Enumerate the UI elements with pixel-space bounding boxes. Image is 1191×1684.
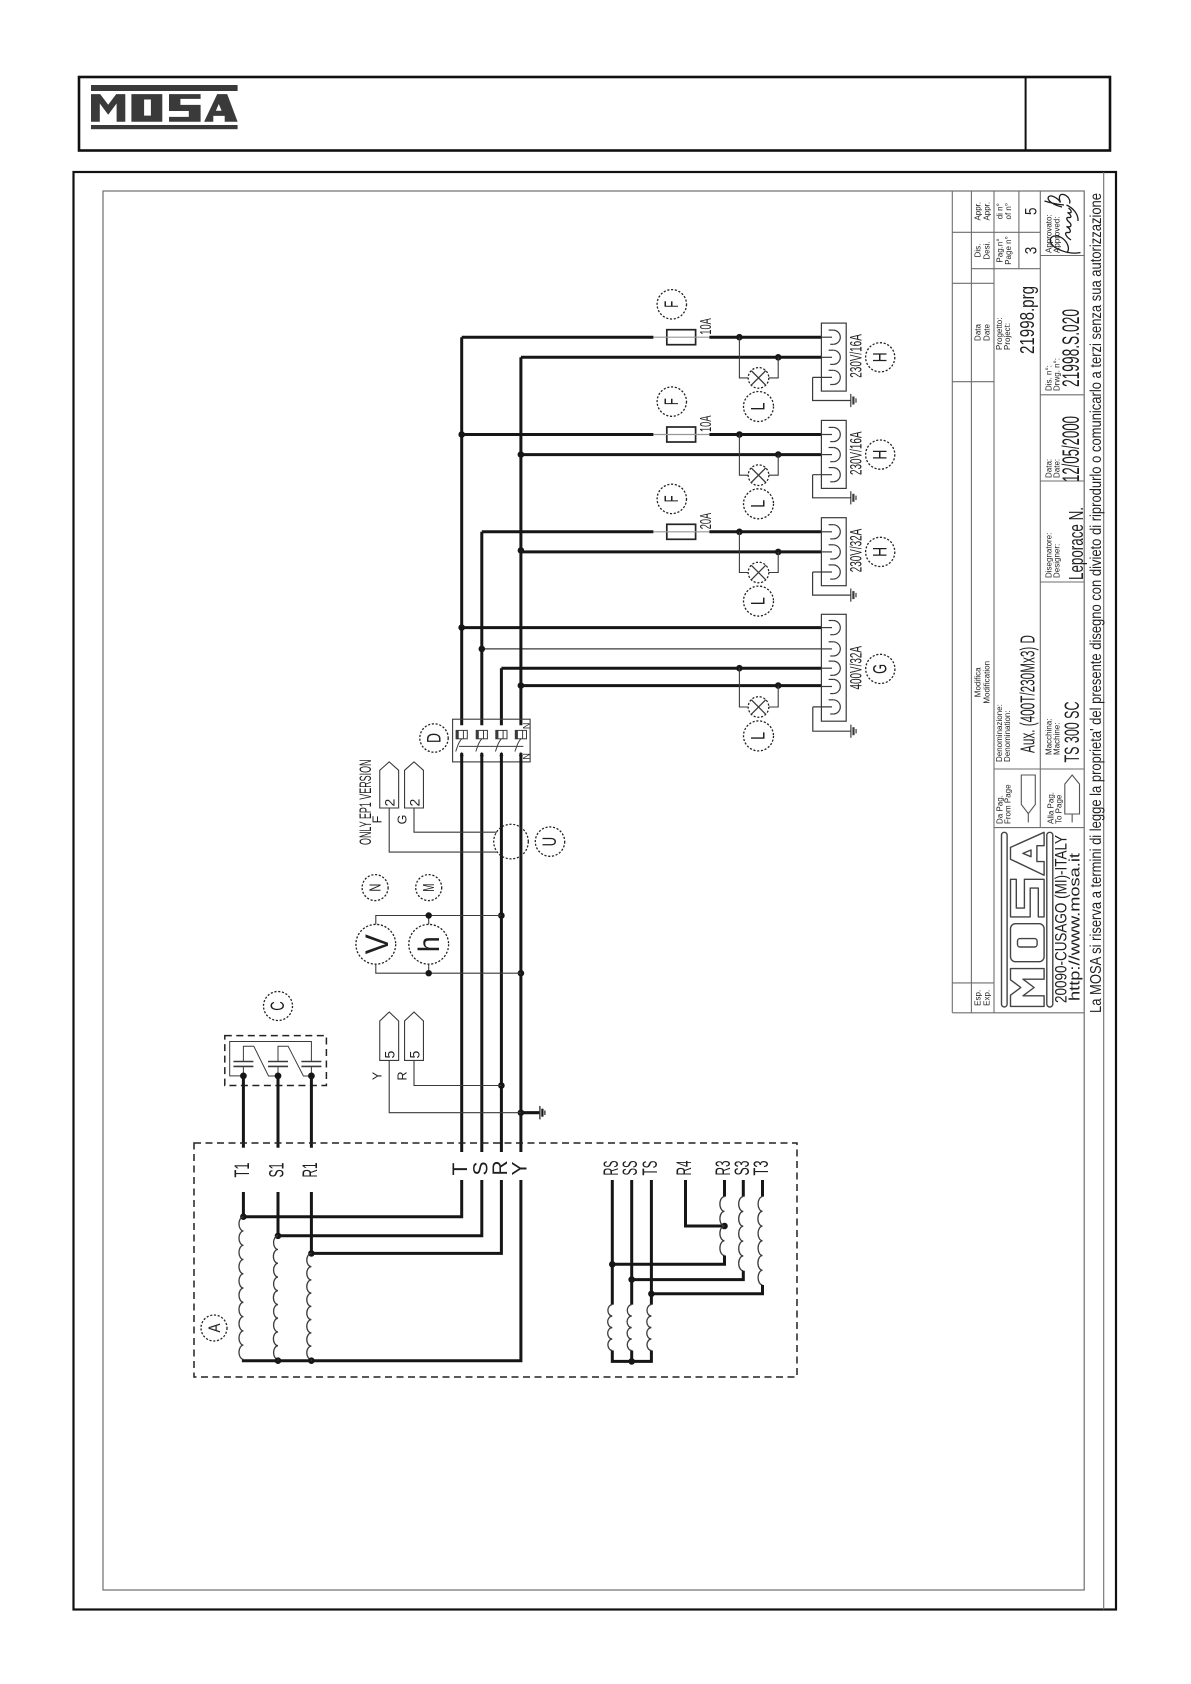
T3 winding	[761, 1180, 764, 1197]
svg-text:2: 2	[406, 799, 422, 807]
meter wiring bottom	[376, 964, 521, 973]
fuse F circuit 2	[657, 387, 686, 416]
lamp tap junctions	[736, 334, 743, 341]
lamp tap junctions	[736, 431, 743, 438]
socket earth	[851, 589, 856, 602]
svg-text:G: G	[395, 815, 409, 825]
fuse F circuit 1	[657, 290, 686, 319]
svg-text:2: 2	[382, 799, 398, 807]
wire F to CT	[389, 808, 498, 852]
A circle	[201, 1315, 227, 1341]
wires below CT	[242, 1076, 245, 1148]
svg-text:Designer:: Designer:	[1053, 544, 1062, 578]
svg-text:10A: 10A	[698, 415, 715, 432]
disclaimer strip divider	[1103, 172, 1105, 1610]
R3 winding	[723, 1180, 726, 1197]
lamp L4	[739, 668, 748, 707]
wire T vertical	[460, 337, 463, 725]
fuse 20A	[667, 524, 696, 539]
svg-text:5: 5	[406, 1051, 422, 1059]
svg-text:Exp.: Exp.	[983, 990, 992, 1006]
svg-text:H: H	[870, 547, 891, 557]
svg-text:400V/32A: 400V/32A	[847, 646, 866, 690]
fuse F circuit 3	[657, 484, 686, 513]
CT U toroid	[494, 824, 529, 859]
breaker pole	[515, 730, 526, 738]
svg-text:10A: 10A	[698, 318, 715, 335]
svg-text:D: D	[424, 733, 446, 743]
svg-text:A: A	[205, 1323, 224, 1333]
hour meter h	[409, 924, 449, 964]
outer page frame	[74, 172, 1117, 1610]
MOSA logo	[91, 85, 238, 129]
wire phase	[462, 433, 654, 436]
svg-text:of n°: of n°	[1004, 203, 1013, 220]
svg-text:5: 5	[382, 1051, 398, 1059]
svg-text:Data: Data	[974, 324, 983, 341]
approval signature	[1045, 194, 1081, 253]
flag 5 R	[405, 1012, 424, 1060]
wire S below D	[480, 753, 483, 1152]
SS coil	[627, 1305, 632, 1351]
svg-text:Denomination:: Denomination:	[1003, 710, 1012, 762]
svg-text:Appr.: Appr.	[983, 202, 992, 221]
trip bar	[459, 745, 523, 747]
D circle	[420, 724, 448, 752]
RS SS TS wires	[611, 1180, 614, 1305]
svg-text:L: L	[749, 500, 770, 508]
H circle	[866, 440, 895, 469]
wire phase	[462, 336, 654, 339]
svg-text:F: F	[662, 495, 683, 502]
wire neutral	[521, 356, 822, 359]
socket G earth	[851, 725, 856, 738]
socket earth	[851, 394, 856, 407]
svg-text:Appr.: Appr.	[974, 202, 983, 221]
U circle	[535, 827, 564, 856]
CT bars	[301, 1062, 321, 1067]
lamp L3	[739, 532, 748, 573]
meter wiring top	[376, 916, 502, 925]
Y tap junctions	[518, 970, 525, 977]
svg-text:Modifica: Modifica	[974, 667, 983, 697]
svg-text:From Page: From Page	[1004, 784, 1013, 824]
wire neutral	[521, 453, 822, 456]
CT box dashed	[225, 1036, 327, 1086]
breaker pole	[476, 730, 487, 738]
svg-text:G: G	[870, 664, 891, 674]
svg-text:C: C	[268, 1001, 289, 1011]
svg-text:http://www.mosa.it: http://www.mosa.it	[1067, 852, 1084, 1001]
svg-text:Y: Y	[508, 1161, 531, 1175]
wire Y below D	[519, 753, 522, 1152]
RS coil	[608, 1305, 613, 1351]
fuse 10A	[667, 330, 696, 345]
wire phase	[482, 530, 654, 533]
svg-text:Y: Y	[371, 1071, 385, 1080]
svg-text:Date: Date	[983, 324, 992, 341]
TS coil	[647, 1305, 652, 1351]
lamp L1	[739, 337, 748, 378]
svg-text:L: L	[749, 403, 770, 411]
svg-text:12/05/2000: 12/05/2000	[1058, 416, 1085, 482]
lamp tap junctions	[736, 529, 743, 536]
sheet border	[103, 191, 1084, 1590]
voltmeter V	[356, 924, 396, 964]
svg-text:230V/16A: 230V/16A	[847, 431, 866, 475]
svg-text:TS 300 SC: TS 300 SC	[1061, 702, 1084, 763]
svg-text:To Page: To Page	[1055, 794, 1064, 824]
svg-text:H: H	[870, 450, 891, 460]
socket H	[813, 420, 851, 497]
breaker pole	[456, 730, 467, 738]
svg-text:V: V	[359, 934, 395, 955]
lamp tap junctions	[736, 665, 743, 672]
svg-text:Project:: Project:	[1003, 323, 1012, 350]
header box	[79, 77, 1110, 151]
svg-text:F: F	[662, 398, 683, 405]
socket earth	[851, 491, 856, 504]
R4 tap wire	[686, 1180, 725, 1226]
from-page flag	[1021, 775, 1079, 822]
socket H	[813, 518, 851, 595]
alternator box A dashed	[194, 1143, 797, 1377]
svg-text:21998.S.020: 21998.S.020	[1058, 309, 1085, 387]
svg-text:N: N	[522, 723, 532, 730]
wire R-flag	[414, 1060, 501, 1085]
wire S vertical	[480, 532, 483, 726]
socket G 400V/32A	[813, 614, 851, 731]
breaker pole	[496, 730, 507, 738]
svg-text:S1: S1	[266, 1163, 289, 1178]
fuse 10A	[667, 427, 696, 442]
CT bars	[268, 1062, 288, 1067]
ground symbol	[521, 1111, 539, 1114]
wire G to CT	[414, 808, 497, 832]
svg-text:Dis.: Dis.	[974, 244, 983, 258]
flag 5 Y	[380, 1012, 399, 1060]
svg-text:N: N	[522, 753, 532, 760]
title block	[952, 191, 1088, 1013]
svg-text:F: F	[662, 301, 683, 308]
meter junction dots	[426, 912, 432, 918]
svg-text:h: h	[413, 936, 446, 952]
svg-text:L: L	[749, 597, 770, 605]
svg-text:L: L	[749, 732, 770, 740]
svg-text:Leporace N.: Leporace N.	[1066, 507, 1088, 580]
wire R below D	[500, 753, 503, 1152]
wire Y vertical	[519, 357, 522, 725]
svg-text:N: N	[367, 884, 384, 892]
svg-text:H: H	[870, 352, 891, 362]
svg-text:Desi.: Desi.	[983, 241, 992, 259]
svg-text:5: 5	[1022, 207, 1041, 215]
svg-text:T1: T1	[231, 1163, 254, 1178]
R tap junctions	[498, 912, 505, 919]
svg-text:R4: R4	[673, 1160, 696, 1175]
H circle	[866, 537, 895, 566]
svg-text:ONLY EP1 VERSION: ONLY EP1 VERSION	[356, 760, 375, 846]
breaker D block	[453, 719, 530, 762]
flag 2 F	[380, 762, 399, 808]
svg-text:M: M	[421, 884, 438, 892]
to-page flag	[1065, 775, 1080, 814]
svg-text:La MOSA si riserva a termini d: La MOSA si riserva a termini di legge la…	[1088, 193, 1105, 1013]
lamp L2	[739, 435, 748, 476]
400V socket wires	[462, 626, 822, 629]
CT bars	[233, 1062, 253, 1067]
S3 winding	[742, 1180, 745, 1197]
svg-text:230V/16A: 230V/16A	[847, 334, 866, 378]
R1 winding	[310, 1192, 313, 1253]
svg-text:Approved:: Approved:	[1053, 217, 1062, 253]
star point bus	[243, 1180, 521, 1361]
wire R vertical	[500, 668, 503, 725]
svg-text:Esp.: Esp.	[974, 990, 983, 1006]
T1 winding	[242, 1192, 245, 1217]
svg-text:21998.prg: 21998.prg	[1017, 286, 1039, 354]
G circle	[866, 654, 895, 683]
MOSA outline logo	[1002, 832, 1053, 1007]
H circle	[866, 343, 895, 372]
svg-text:Page n°: Page n°	[1004, 236, 1013, 265]
svg-text:Modification: Modification	[983, 661, 992, 704]
svg-text:F: F	[371, 815, 385, 823]
flag 2 G	[405, 762, 424, 808]
CT secondary loop	[230, 1042, 312, 1077]
wire Y-flag	[389, 1060, 521, 1112]
meter M circle	[416, 875, 442, 901]
svg-text:20A: 20A	[698, 513, 715, 530]
svg-text:R: R	[395, 1071, 409, 1080]
svg-text:T3: T3	[750, 1161, 773, 1176]
svg-text:3: 3	[1022, 247, 1041, 255]
C circle	[264, 992, 293, 1021]
junction dots on verticals	[458, 431, 465, 438]
svg-text:R1: R1	[299, 1163, 322, 1178]
meter N circle	[362, 875, 388, 901]
svg-text:TS: TS	[639, 1161, 662, 1176]
svg-text:Aux. (400T/230Mx3) D: Aux. (400T/230Mx3) D	[1018, 635, 1040, 753]
S1 winding	[277, 1192, 280, 1236]
svg-text:U: U	[540, 837, 561, 847]
svg-text:230V/32A: 230V/32A	[847, 528, 866, 572]
aux star bus	[612, 1351, 651, 1362]
socket H	[813, 323, 851, 400]
wire neutral	[521, 550, 822, 553]
wire T below D	[460, 753, 463, 1152]
